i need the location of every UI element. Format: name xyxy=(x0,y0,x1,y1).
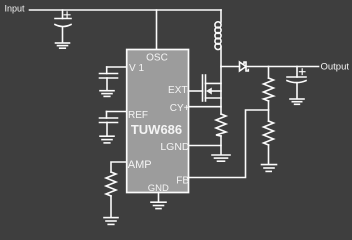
svg-text:REF: REF xyxy=(128,110,148,121)
wire REF pin xyxy=(107,111,127,113)
wire drain junction to diode xyxy=(221,66,240,68)
resistor R1 on AMP xyxy=(106,172,116,196)
capacitor C2 on V1 xyxy=(100,67,118,90)
ground below R4 xyxy=(262,165,277,172)
resistor R4 divider bottom xyxy=(264,121,274,164)
wire FB feedback xyxy=(189,110,269,178)
svg-text:V 1: V 1 xyxy=(129,63,144,74)
svg-text:TUW686: TUW686 xyxy=(131,122,182,137)
capacitor C3 on REF xyxy=(100,112,118,136)
wire input bus top xyxy=(30,9,222,11)
wire R1 to ground xyxy=(110,196,112,217)
wire GND pin drop xyxy=(158,193,160,203)
svg-text:LGND: LGND xyxy=(160,141,190,153)
transistor Q1 MOSFET xyxy=(203,67,222,115)
wire LGND pin xyxy=(189,145,222,147)
capacitor C1 input electrolytic xyxy=(55,10,71,42)
svg-text:EXT: EXT xyxy=(168,85,187,96)
ground below C2 xyxy=(100,91,114,97)
svg-text:CY+: CY+ xyxy=(170,103,190,114)
ground below R2 xyxy=(212,155,230,161)
wire OSC drop xyxy=(156,10,158,50)
ground below C1 xyxy=(56,43,70,48)
op-amp U1 TUW686 body xyxy=(127,50,189,193)
wire EXT to gate xyxy=(189,90,203,92)
resistor R2 sense xyxy=(216,114,226,136)
svg-text:FB: FB xyxy=(176,176,189,187)
wire AMP pin xyxy=(111,162,127,172)
inductor L1 xyxy=(215,10,221,67)
svg-text:Output: Output xyxy=(321,62,350,73)
svg-text:AMP: AMP xyxy=(128,159,152,171)
capacitor C4 output electrolytic xyxy=(287,67,306,99)
wire V1 pin xyxy=(107,66,127,68)
wire diode to output xyxy=(246,66,319,68)
ground below R1 xyxy=(104,218,118,225)
wire CY+ pin to source line xyxy=(189,106,222,108)
ground below C4 xyxy=(290,99,304,104)
wire R2 to ground xyxy=(220,136,222,155)
ground below GND pin xyxy=(151,202,166,208)
svg-text:Input: Input xyxy=(5,4,26,14)
svg-text:OSC: OSC xyxy=(146,52,168,63)
diode D1 schottky xyxy=(240,62,249,71)
resistor R3 divider top xyxy=(264,67,274,122)
ground below C3 xyxy=(100,136,114,143)
